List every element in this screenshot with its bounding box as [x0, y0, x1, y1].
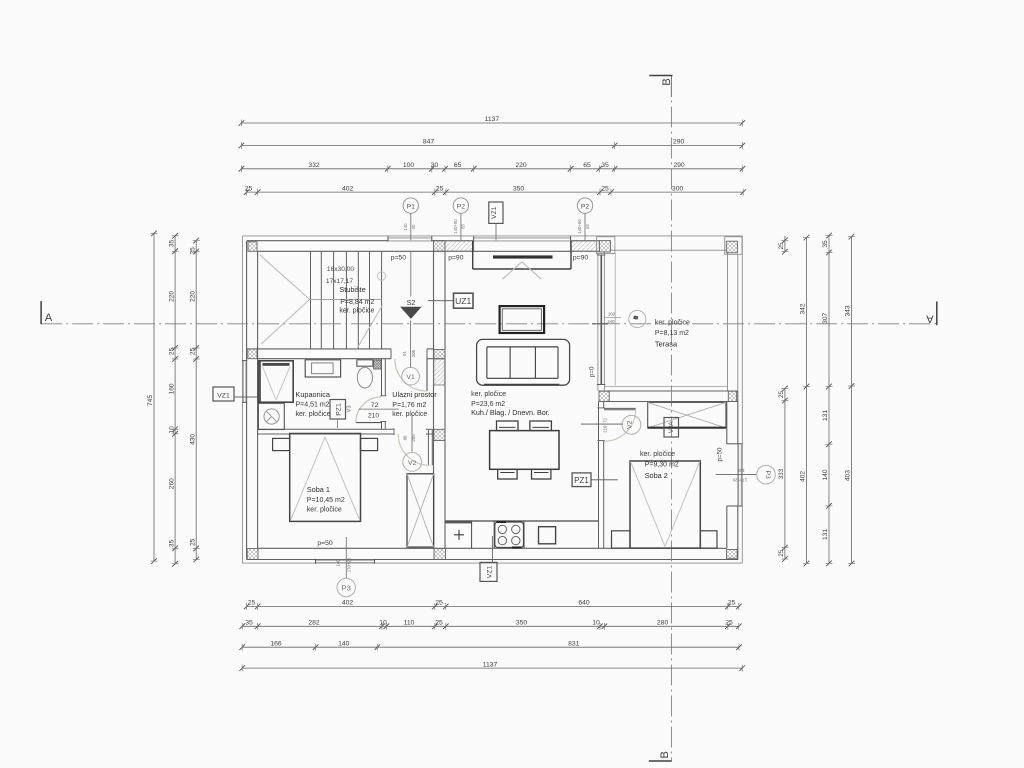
svg-text:p=0: p=0	[589, 366, 596, 377]
svg-text:260: 260	[168, 478, 175, 489]
svg-text:300: 300	[672, 185, 684, 192]
block terrace/Soba2 wall right end	[728, 391, 736, 401]
svg-text:VZ1: VZ1	[487, 566, 494, 579]
dimension row bottom 3	[239, 640, 741, 650]
PZ1 label box near kitchen	[572, 473, 618, 487]
svg-text:282: 282	[308, 620, 320, 627]
window marker P2 (right)	[577, 198, 593, 240]
svg-text:220: 220	[189, 291, 196, 302]
terrace parapet top inner line	[611, 249, 728, 251]
svg-text:831: 831	[568, 640, 580, 647]
dimension chain left middle	[168, 233, 178, 567]
svg-text:140+80: 140+80	[453, 219, 458, 234]
column block top of stairs/living wall	[434, 241, 446, 252]
kitchen counter	[445, 520, 598, 548]
column block top-left corner	[248, 242, 257, 252]
svg-text:1137: 1137	[483, 661, 498, 668]
svg-text:Soba 1: Soba 1	[307, 485, 330, 494]
svg-text:ker. pločice: ker. pločice	[655, 319, 690, 326]
svg-text:402: 402	[342, 185, 354, 192]
axis A solid tick at terrace glass wall	[592, 323, 608, 325]
svg-text:Soba 2: Soba 2	[645, 471, 668, 480]
svg-text:Terasa: Terasa	[655, 339, 678, 348]
svg-text:25: 25	[189, 247, 196, 255]
svg-text:160: 160	[168, 383, 175, 394]
axis B vertical dash-dot	[670, 76, 672, 762]
axis marker A right	[926, 302, 937, 326]
dimension row bottom 2	[239, 620, 741, 630]
TV	[500, 306, 544, 333]
apartment marker S2 with triangle	[400, 298, 421, 319]
svg-text:P3: P3	[342, 584, 351, 593]
stair walk line and arrows	[260, 255, 383, 348]
svg-text:P=23,6 m2: P=23,6 m2	[471, 401, 505, 408]
dimension row top 4	[244, 185, 746, 195]
bathroom duct block (dark crosshatch)	[374, 360, 382, 369]
wall top exterior	[247, 241, 600, 252]
ventilation marker VZ1 top	[489, 202, 503, 240]
axis marker A left	[41, 301, 53, 324]
terrace small dims	[604, 312, 621, 324]
wall terrace/Soba2 (y391-401.5)	[599, 391, 738, 402]
svg-text:UZ1: UZ1	[455, 296, 471, 306]
dimension chain right 1 (25 / 25-333-25)	[778, 236, 788, 562]
washing machine	[305, 360, 340, 377]
svg-text:p=50: p=50	[391, 254, 407, 261]
svg-text:p=50: p=50	[317, 540, 333, 547]
svg-text:140+80: 140+80	[577, 219, 582, 234]
wall bathroom/entry vertical (x381.5-385.3)	[380, 359, 386, 430]
terrace labels	[655, 319, 690, 348]
terrace floor edge line above wall	[604, 386, 727, 388]
svg-text:25: 25	[728, 600, 736, 607]
block stairs-living wall / entry bottom wall junction	[434, 429, 445, 440]
axis B vertical solid start segment	[670, 76, 672, 98]
bed Soba2	[630, 461, 700, 548]
svg-text:35: 35	[822, 240, 829, 248]
svg-text:65: 65	[454, 162, 462, 169]
V2A label box	[664, 418, 679, 438]
svg-text:65: 65	[583, 162, 591, 169]
door V3 bathroom	[356, 397, 382, 423]
terrace drain circle	[629, 310, 646, 327]
Soba1 labels	[307, 485, 345, 514]
sofa	[477, 339, 570, 385]
kitchen appliance square	[539, 527, 556, 544]
dimension chain left inner	[189, 238, 199, 563]
svg-text:P=9,30 m2: P=9,30 m2	[645, 461, 679, 468]
svg-text:25: 25	[245, 185, 253, 192]
svg-text:140: 140	[737, 468, 745, 473]
axis marker B top	[649, 76, 673, 86]
window Soba1 (bottom wall) glazing	[316, 559, 375, 564]
svg-text:220: 220	[168, 291, 175, 302]
svg-text:V2: V2	[626, 420, 633, 429]
wall bathroom/entry top (y348.9-358.7)	[247, 349, 434, 359]
hatched wall segment right of big window	[571, 241, 600, 251]
svg-text:V1: V1	[406, 374, 415, 381]
dimension chain right 4	[845, 234, 855, 567]
stair treads	[311, 251, 382, 349]
svg-text:P=10,45 m2: P=10,45 m2	[307, 497, 345, 504]
svg-text:140: 140	[822, 469, 829, 480]
svg-text:10: 10	[592, 620, 600, 627]
dimension row top 3	[239, 162, 746, 172]
door V2 size annotation	[403, 434, 417, 442]
svg-text:35: 35	[601, 162, 609, 169]
door V2 entry/Soba1 (bottom wall of entry)	[398, 430, 432, 465]
column block bottom-left corner	[247, 549, 258, 560]
door V1 label circle	[402, 252, 420, 385]
svg-text:131: 131	[822, 410, 829, 421]
svg-text:140: 140	[336, 559, 341, 567]
svg-text:403: 403	[845, 470, 852, 481]
svg-text:35: 35	[245, 620, 253, 627]
terrace left column	[597, 237, 615, 254]
svg-text:PZ1: PZ1	[574, 476, 589, 485]
svg-text:333: 333	[778, 468, 785, 479]
hatched wall segment left of big window	[445, 241, 474, 251]
svg-text:220: 220	[515, 162, 527, 169]
terrace right column	[725, 237, 742, 255]
wall living/Soba2 (x598.5-603.7)	[597, 402, 604, 549]
dining table	[490, 431, 559, 470]
svg-text:205: 205	[411, 434, 416, 442]
svg-text:ker. pločice: ker. pločice	[296, 411, 331, 418]
svg-text:290: 290	[673, 139, 685, 146]
svg-text:A: A	[926, 313, 934, 325]
svg-text:25: 25	[778, 391, 785, 398]
column block bottom-right corner	[727, 550, 738, 559]
wall stairs/living (vertical x433.5-445)	[434, 251, 446, 548]
terrace glass wall (living/terrace)	[597, 251, 615, 391]
svg-text:P1: P1	[407, 203, 416, 210]
block terrace/Soba2 wall left end	[599, 391, 609, 401]
svg-text:p=50: p=50	[717, 447, 724, 461]
window marker P2 (left)	[453, 198, 468, 240]
svg-text:640: 640	[578, 600, 590, 607]
window glazing 220 (top wall, living room)	[474, 236, 571, 241]
window shower (left wall) glazing	[242, 361, 247, 403]
P3 window label circle right	[716, 465, 776, 484]
door V1 size annotation	[402, 349, 416, 357]
svg-text:P=4,51 m2: P=4,51 m2	[296, 402, 330, 409]
svg-text:170+20: 170+20	[347, 557, 352, 572]
shower cabin	[258, 361, 293, 402]
svg-text:ker. pločice: ker. pločice	[471, 391, 506, 398]
wall bottom exterior	[247, 548, 739, 559]
svg-text:VZ1: VZ1	[491, 206, 498, 219]
svg-text:307: 307	[822, 312, 829, 323]
window P1 glazing (top wall, stairs)	[388, 236, 432, 241]
svg-text:25: 25	[435, 600, 443, 607]
svg-text:ker. pločice: ker. pločice	[392, 411, 427, 418]
p= labels top wall	[391, 254, 589, 261]
window P3 (right wall) glazing	[739, 444, 742, 506]
svg-text:745: 745	[147, 395, 154, 406]
svg-text:B: B	[661, 78, 673, 85]
door V2 (Soba2) label circle	[622, 415, 641, 434]
svg-text:25: 25	[778, 242, 785, 249]
block left wall / bathroom wall junction	[248, 349, 257, 359]
svg-text:P2: P2	[581, 203, 590, 210]
svg-text:30: 30	[431, 162, 439, 169]
svg-text:25: 25	[189, 347, 196, 355]
svg-text:P=8,13 m2: P=8,13 m2	[655, 330, 689, 337]
facade thin outline	[242, 236, 742, 563]
svg-text:P=1,76 m2: P=1,76 m2	[392, 402, 426, 409]
svg-text:B: B	[659, 751, 671, 758]
svg-text:ker. pločice: ker. pločice	[640, 451, 675, 458]
axis marker B bottom	[649, 751, 672, 761]
svg-text:P3: P3	[764, 471, 771, 480]
svg-text:65: 65	[585, 224, 590, 229]
svg-text:342: 342	[800, 303, 807, 314]
stair start circle	[377, 272, 385, 280]
svg-text:25: 25	[778, 549, 785, 556]
wall bathroom+entry bottom (y429.3-434.0)	[258, 428, 434, 435]
svg-text:P2: P2	[457, 203, 466, 210]
svg-text:290: 290	[673, 162, 685, 169]
stove with burners	[495, 522, 524, 548]
svg-text:25: 25	[168, 347, 175, 355]
dining chairs	[497, 421, 552, 479]
Kupaonica labels	[296, 390, 331, 418]
svg-text:402: 402	[800, 471, 807, 482]
svg-text:350: 350	[513, 185, 525, 192]
kitchen sink cross	[454, 530, 464, 540]
svg-text:402: 402	[342, 600, 354, 607]
svg-text:Kuh./ Blag. / Dnevn. Bor.: Kuh./ Blag. / Dnevn. Bor.	[471, 408, 550, 417]
svg-text:25: 25	[725, 620, 733, 627]
svg-text:160: 160	[608, 312, 616, 317]
svg-text:100: 100	[403, 162, 415, 169]
svg-text:350: 350	[516, 620, 528, 627]
door V1 entry (top wall of entry)	[395, 359, 427, 391]
svg-text:ker. pločice: ker. pločice	[339, 308, 374, 315]
svg-text:S2: S2	[407, 298, 416, 307]
nightstands Soba1	[273, 438, 378, 450]
svg-text:210: 210	[602, 425, 607, 433]
svg-text:35: 35	[168, 539, 175, 547]
dimension row bottom 4	[239, 661, 745, 671]
svg-text:343: 343	[845, 305, 852, 316]
svg-text:p=90: p=90	[448, 254, 464, 261]
VZ1 label box left	[213, 387, 257, 401]
svg-text:ker. pločice: ker. pločice	[307, 506, 342, 513]
svg-text:25: 25	[248, 600, 256, 607]
svg-text:332: 332	[308, 162, 320, 169]
door V3 label (rotated) and PZ1 box in bathroom	[330, 400, 353, 429]
svg-text:p=90: p=90	[573, 254, 589, 261]
svg-text:Kupaonica: Kupaonica	[296, 390, 331, 399]
dimension row top 2 (847/290)	[239, 139, 746, 149]
svg-text:131: 131	[822, 529, 829, 540]
svg-text:Stubište: Stubište	[339, 285, 365, 294]
window marker P1	[403, 198, 418, 240]
window niche below big window	[473, 241, 571, 279]
dimension chain right 3	[822, 233, 832, 567]
toilet	[357, 360, 373, 388]
svg-text:170+20: 170+20	[732, 478, 747, 483]
svg-text:25: 25	[435, 620, 443, 627]
svg-text:1137: 1137	[485, 116, 500, 123]
svg-text:110: 110	[404, 620, 415, 627]
svg-text:240: 240	[607, 319, 615, 324]
axis A horizontal dash-dot	[41, 323, 937, 325]
dimension row top 1 (1137)	[239, 116, 746, 126]
svg-text:72: 72	[602, 417, 607, 422]
svg-text:210: 210	[368, 413, 380, 420]
P3 window label circle bottom	[336, 537, 356, 597]
svg-text:V2: V2	[408, 460, 417, 467]
svg-text:25: 25	[189, 538, 196, 546]
svg-text:10: 10	[168, 426, 175, 434]
svg-text:16x30,00: 16x30,00	[327, 266, 354, 273]
svg-text:140: 140	[403, 223, 408, 231]
svg-text:166: 166	[270, 640, 282, 647]
svg-text:V3: V3	[347, 405, 353, 412]
dimension chain right 2	[800, 235, 810, 567]
column block bottom of stairs/living wall	[434, 549, 446, 560]
washbasin	[258, 403, 284, 429]
dimension chain left outer (745)	[147, 231, 157, 564]
svg-text:Ulazni prostor: Ulazni prostor	[392, 390, 437, 399]
svg-text:140: 140	[338, 640, 350, 647]
svg-text:10: 10	[379, 620, 387, 627]
svg-text:80: 80	[403, 435, 408, 440]
svg-text:P=8,84 m2: P=8,84 m2	[340, 299, 374, 306]
dimension row bottom 1	[244, 600, 742, 610]
svg-text:PZ1: PZ1	[336, 403, 343, 416]
svg-text:280: 280	[657, 620, 669, 627]
svg-text:35: 35	[168, 240, 175, 248]
svg-text:17x17,17: 17x17,17	[326, 278, 353, 285]
svg-text:25: 25	[601, 185, 609, 192]
svg-text:90: 90	[411, 224, 416, 229]
svg-text:A: A	[45, 312, 53, 324]
wall right exterior (Soba2 part)	[727, 254, 742, 559]
svg-text:VZ1: VZ1	[217, 393, 230, 400]
svg-text:65: 65	[461, 224, 466, 229]
wall left exterior	[247, 241, 258, 560]
wardrobe Soba1 (X)	[407, 474, 434, 547]
svg-text:V2A: V2A	[668, 421, 675, 434]
door V3 size annotation 72/210	[359, 402, 399, 420]
bed Soba1	[290, 434, 361, 522]
terrace parapet right (thin)	[727, 253, 729, 391]
door V2 label circle	[403, 414, 422, 471]
Soba2 labels	[640, 451, 679, 480]
svg-text:25: 25	[436, 185, 444, 192]
svg-text:205: 205	[411, 349, 416, 357]
svg-text:430: 430	[189, 434, 196, 445]
block stairs-living wall / bathroom wall junction	[434, 349, 445, 358]
VZ1 label bottom with leader	[480, 536, 497, 581]
nightstands Soba2	[612, 531, 718, 548]
door V2 living/Soba2	[604, 408, 636, 441]
svg-text:72: 72	[371, 402, 379, 409]
duct shaft hatch in wall next to entry door	[434, 359, 445, 385]
living room labels	[471, 391, 550, 417]
wardrobe Soba2 (X)	[648, 402, 726, 428]
svg-text:91: 91	[402, 351, 407, 356]
stair labels	[326, 266, 375, 315]
door V2 (Soba2) size annotation 72/210	[581, 417, 623, 432]
svg-text:847: 847	[423, 139, 435, 146]
Ulazni prostor labels	[392, 390, 437, 418]
UZ1 label box	[428, 293, 473, 308]
